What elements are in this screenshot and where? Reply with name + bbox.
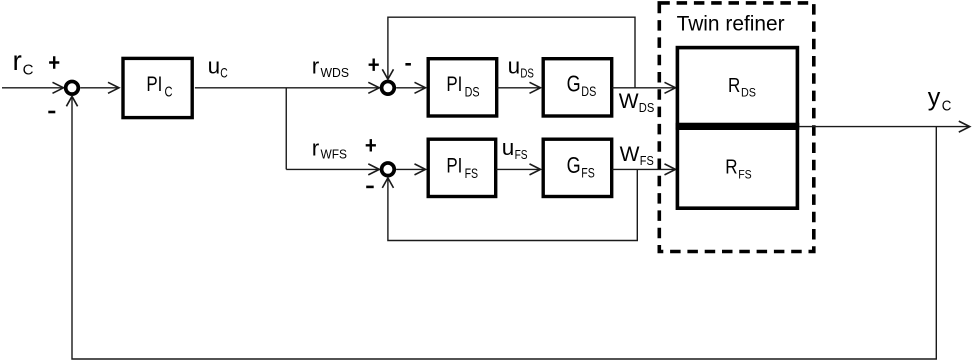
svg-text:FS: FS	[581, 166, 595, 181]
wire branch to summing junction FS	[286, 164, 379, 175]
label r_WDS	[312, 54, 349, 80]
summing junction DS	[382, 81, 395, 94]
block R_DS	[677, 48, 797, 125]
label PI_FS	[446, 153, 478, 180]
label minus sign at summing junction 1	[48, 111, 55, 114]
svg-text:PI: PI	[446, 153, 462, 177]
block PI_FS	[428, 139, 496, 196]
svg-text:r: r	[312, 135, 320, 160]
svg-text:r: r	[13, 45, 22, 76]
svg-text:DS: DS	[741, 88, 756, 100]
svg-text:W: W	[619, 90, 639, 113]
label PI_C	[146, 72, 172, 100]
svg-text:PI: PI	[446, 72, 462, 96]
svg-text:C: C	[23, 61, 34, 78]
svg-text:FS: FS	[738, 169, 752, 181]
summing junction FS	[382, 163, 395, 176]
wire G_DS to R_DS	[612, 82, 676, 93]
feedback wire W_FS to summing junction FS	[382, 169, 637, 240]
label minus sign at summing junction DS	[405, 63, 411, 66]
svg-text:DS: DS	[465, 84, 480, 99]
label PI_DS	[446, 72, 479, 99]
svg-text:PI: PI	[146, 72, 162, 96]
label u_C	[208, 54, 228, 81]
svg-text:C: C	[220, 65, 228, 81]
svg-text:WDS: WDS	[321, 65, 350, 80]
dashed box Twin refiner	[659, 3, 814, 252]
svg-text:FS: FS	[465, 166, 479, 181]
svg-text:FS: FS	[515, 147, 528, 162]
svg-text:WFS: WFS	[321, 147, 348, 162]
label W_FS	[620, 143, 654, 168]
svg-text:u: u	[508, 54, 521, 79]
wire G_FS to R_FS	[612, 164, 676, 175]
svg-text:DS: DS	[520, 65, 534, 80]
block R_FS	[677, 128, 797, 208]
label u_DS	[508, 54, 535, 81]
wire branch down to FS row	[285, 88, 287, 170]
wire summing junction FS to PI_FS	[396, 164, 425, 175]
wire PI_C output to summing junction DS	[195, 82, 379, 93]
label r_C	[13, 45, 34, 79]
svg-text:C: C	[942, 98, 952, 115]
wire input r_C	[2, 82, 64, 93]
summing junction 1	[66, 81, 79, 94]
label y_C	[928, 84, 952, 115]
label r_WFS	[312, 135, 347, 161]
label G_DS	[567, 71, 597, 99]
svg-text:Twin refiner: Twin refiner	[677, 11, 785, 35]
svg-text:G: G	[567, 152, 581, 178]
label plus sign at summing junction FS	[366, 139, 376, 151]
label W_DS	[619, 90, 655, 115]
shared border between R_DS and R_FS	[676, 123, 800, 130]
svg-text:G: G	[567, 71, 581, 97]
label plus sign at summing junction DS	[369, 59, 379, 71]
label R_FS	[725, 157, 752, 182]
label G_FS	[567, 152, 595, 180]
svg-text:R: R	[728, 75, 740, 97]
svg-text:W: W	[620, 143, 640, 166]
block PI_DS	[428, 59, 497, 116]
block G_DS	[543, 59, 612, 116]
feedback wire W_DS to summing junction DS	[382, 17, 635, 88]
svg-text:FS: FS	[640, 154, 654, 168]
feedback wire y_C to summing junction 1	[66, 96, 936, 359]
label minus sign at summing junction FS	[366, 186, 374, 189]
wire summing junction 1 to PI_C	[80, 82, 119, 93]
svg-text:u: u	[502, 135, 515, 160]
svg-text:r: r	[312, 54, 320, 79]
block G_FS	[543, 139, 612, 196]
svg-text:u: u	[208, 54, 221, 79]
svg-text:C: C	[165, 84, 173, 100]
svg-text:y: y	[928, 84, 941, 112]
svg-text:R: R	[725, 157, 737, 179]
label plus sign at summing junction 1	[49, 56, 59, 68]
block PI_C	[123, 58, 192, 117]
label R_DS	[728, 75, 756, 100]
svg-text:DS: DS	[581, 84, 596, 99]
wire PI_FS to G_FS	[496, 164, 541, 175]
svg-text:DS: DS	[639, 101, 655, 115]
wire PI_DS to G_DS	[497, 82, 541, 93]
wire output y_C	[799, 121, 970, 132]
wire summing junction DS to PI_DS	[396, 82, 425, 93]
label u_FS	[502, 135, 528, 162]
